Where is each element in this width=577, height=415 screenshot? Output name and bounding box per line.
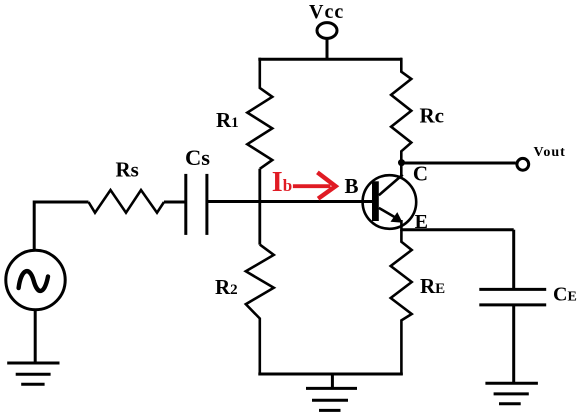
emitter arrowhead: [391, 212, 403, 223]
svg-text:Vcc: Vcc: [309, 1, 344, 23]
wire base: [207, 200, 373, 203]
wire Vcc stem: [326, 38, 329, 60]
wire CE bottom: [512, 305, 515, 383]
ground (right): [485, 383, 538, 404]
Vcc terminal: [317, 23, 337, 39]
wire bottom rail: [258, 373, 403, 376]
Vout terminal: [517, 158, 529, 170]
wire CE top: [512, 230, 515, 290]
emitter diagonal: [379, 208, 395, 217]
wire emitter node: [401, 228, 513, 231]
wire top rail: [258, 58, 402, 61]
ground (middle): [306, 374, 357, 410]
emitter lead: [400, 220, 403, 231]
capacitor CE: [479, 289, 546, 305]
svg-text:B: B: [345, 174, 359, 198]
svg-text:C: C: [413, 161, 428, 185]
collector diagonal: [379, 175, 403, 196]
wire source vertical: [33, 201, 36, 251]
svg-text:Rs: Rs: [116, 158, 139, 182]
resistor RE: [391, 230, 412, 375]
transistor Q1: [363, 175, 417, 231]
wire input top: [34, 201, 88, 204]
resistor R2: [246, 245, 274, 375]
wire Vout: [403, 162, 516, 165]
ground (source): [7, 363, 59, 384]
node C junction dot: [398, 159, 405, 166]
Ib arrow: [293, 172, 336, 198]
resistor Rs: [89, 190, 165, 213]
AC source V1: [6, 250, 65, 309]
svg-text:Vout: Vout: [534, 145, 566, 160]
svg-text:Cs: Cs: [185, 145, 210, 170]
wire Rs to Cs: [164, 201, 186, 204]
svg-text:Rc: Rc: [420, 103, 445, 127]
wire source to ground: [34, 310, 37, 363]
wire collector vertical: [400, 163, 403, 178]
resistor R1: [247, 58, 272, 169]
wire R1 to R2 (base node): [258, 169, 261, 245]
resistor Rc: [391, 58, 411, 163]
sine symbol: [19, 271, 48, 291]
capacitor Cs: [186, 174, 207, 235]
